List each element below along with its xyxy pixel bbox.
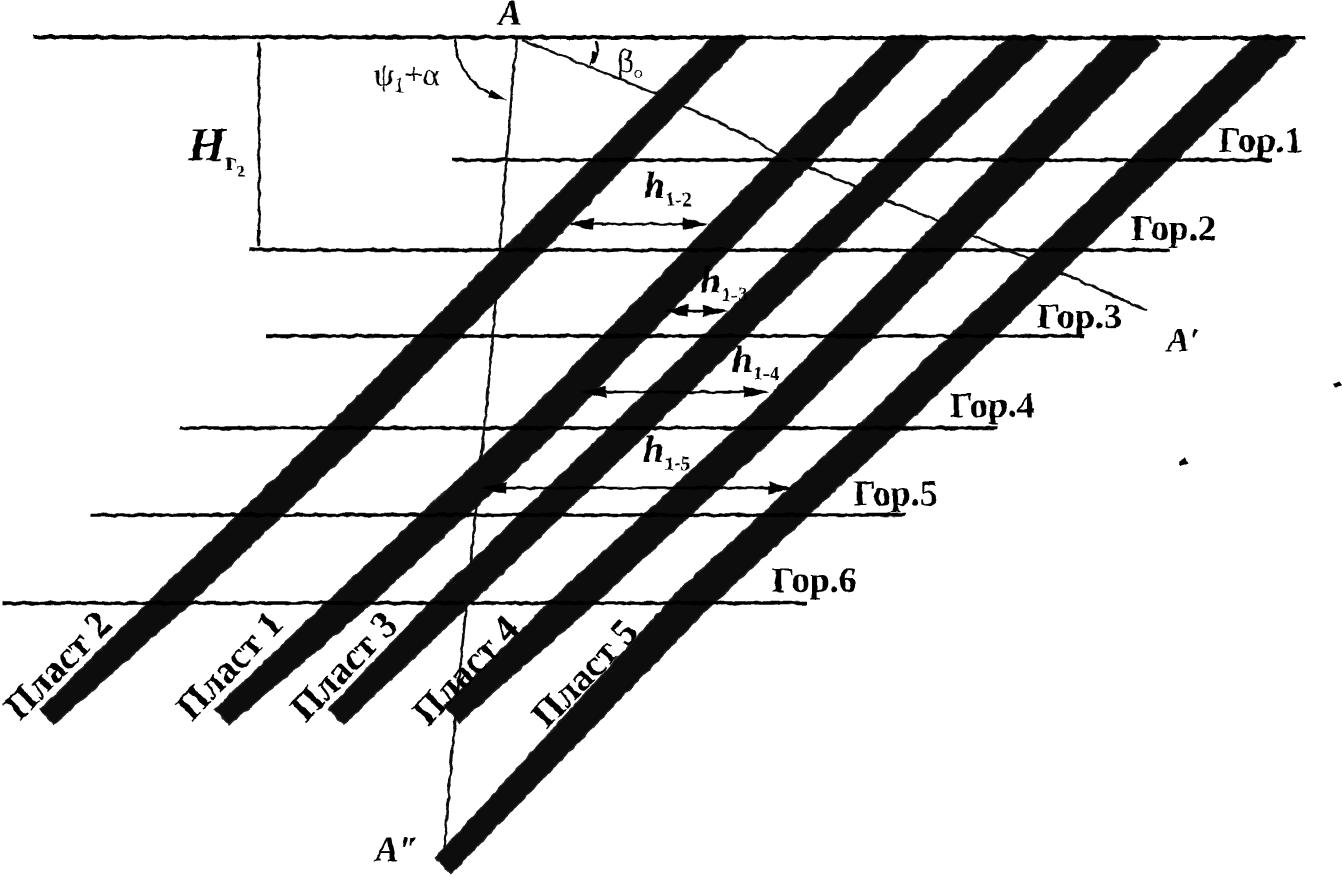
- seam Пласт 5 band: [435, 19, 1297, 873]
- Гор.3 line: [266, 334, 1084, 338]
- Гор.1 line: [452, 158, 1272, 162]
- svg-text:A″: A″: [373, 829, 419, 869]
- Гор.4 line: [180, 426, 997, 430]
- borehole line A to A": [444, 38, 517, 856]
- width arrow h1-5: [481, 482, 794, 495]
- seam Пласт 2 band: [40, 22, 746, 724]
- svg-text:Гор.6: Гор.6: [772, 560, 857, 600]
- seam Пласт 1 band: [215, 21, 928, 725]
- svg-text:ψ1+α: ψ1+α: [374, 56, 440, 97]
- speck artifact 2: [1333, 381, 1342, 387]
- seam Пласт 3 band: [329, 20, 1047, 725]
- ground surface line: [33, 37, 1305, 38]
- speck artifact 1: [1179, 457, 1188, 466]
- svg-text:Гор.3: Гор.3: [1037, 296, 1122, 336]
- seam Пласт 4 band: [445, 18, 1161, 722]
- angle arc ψ1+α: [455, 39, 500, 97]
- depth arrow H: [257, 40, 262, 248]
- Гор.5 line: [91, 513, 906, 517]
- svg-text:Гор.1: Гор.1: [1218, 120, 1303, 160]
- Гор.6 line: [2, 601, 807, 605]
- width arrow h1-2: [568, 218, 708, 231]
- section line A to A': [522, 40, 1147, 311]
- svg-text:Гор.5: Гор.5: [853, 473, 938, 513]
- width arrow h1-4: [581, 386, 769, 399]
- svg-text:A: A: [496, 0, 522, 33]
- svg-text:Гор.2: Гор.2: [1131, 208, 1216, 248]
- Гор.2 line: [249, 248, 1170, 252]
- svg-text:A′: A′: [1165, 322, 1199, 359]
- angle tick β0: [593, 41, 598, 64]
- width arrow h1-3: [663, 305, 728, 318]
- svg-text:Гор.4: Гор.4: [950, 385, 1035, 425]
